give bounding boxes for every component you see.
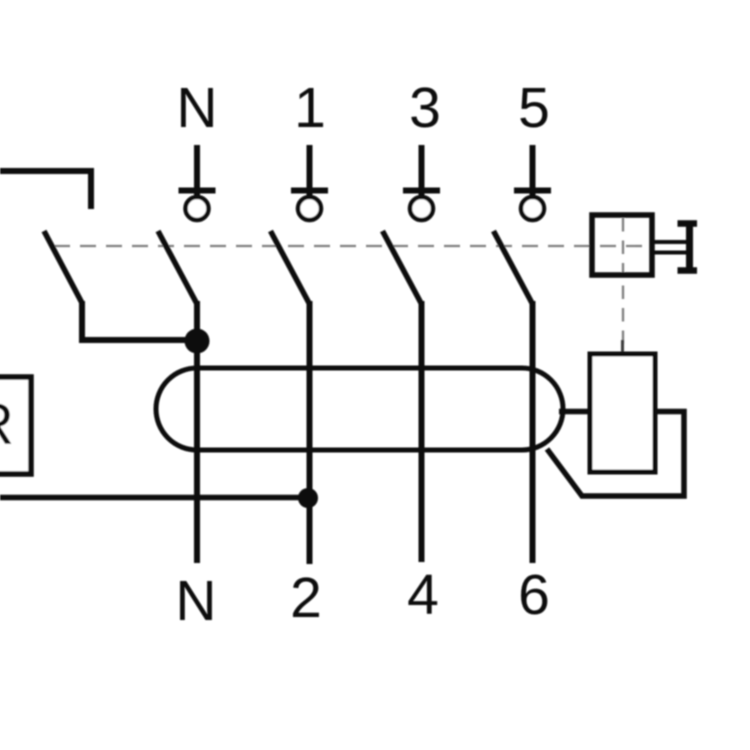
terminal label 1 (top) (294, 76, 326, 140)
conductor 4 (vertical) (419, 301, 425, 562)
terminal label N (bottom) (175, 569, 216, 633)
terminal label 4 (bottom) (407, 563, 439, 627)
terminal 5 (top): lead, clamp bar and fixed contact circle (514, 145, 551, 220)
conductor 2 (vertical) (307, 301, 313, 564)
test circuit wire (top left, to left edge) (0, 171, 91, 209)
junction node on conductor N (185, 329, 210, 354)
junction node on conductor 2 (298, 488, 318, 508)
terminal N (top): lead, clamp bar and fixed contact circle (179, 145, 216, 220)
auxiliary test switch blade (44, 231, 82, 303)
terminal label 5 (top) (518, 76, 550, 140)
svg-text:5: 5 (518, 76, 550, 140)
svg-text:R: R (0, 392, 14, 457)
mechanical linkage (horizontal dashed line) (54, 245, 646, 247)
switch pole N blade (158, 231, 197, 304)
terminal label 3 (top) (409, 76, 441, 140)
svg-text:N: N (175, 569, 216, 633)
test circuit wire (bottom, from left edge to node on conductor 2) (0, 495, 308, 501)
terminal 3 (top): lead, clamp bar and fixed contact circle (403, 145, 440, 220)
svg-text:3: 3 (409, 76, 441, 140)
terminal 1 (top): lead, clamp bar and fixed contact circle (291, 145, 328, 220)
svg-text:4: 4 (407, 563, 439, 627)
test resistor R (box at left edge) (0, 377, 31, 474)
switch pole 1-2 blade (271, 231, 310, 304)
test button T (square) (592, 215, 652, 275)
mechanical linkage (vertical dashed line to trip coil) (621, 218, 624, 352)
wire from trip coil around to CT (return loop) (547, 412, 684, 497)
svg-text:1: 1 (294, 76, 326, 140)
svg-text:N: N (176, 76, 217, 140)
trip coil (relay box) (590, 354, 655, 472)
svg-text:6: 6 (518, 563, 550, 627)
switch pole 3-4 blade (383, 231, 422, 304)
test button plunger (two parallel lines) (652, 242, 687, 253)
terminal label 2 (bottom) (290, 566, 322, 630)
svg-text:2: 2 (290, 566, 322, 630)
conductor 6 (vertical) (530, 301, 536, 563)
test button cap (bracket) (678, 221, 698, 274)
terminal label N (top) (176, 76, 217, 140)
terminal label 6 (bottom) (518, 563, 550, 627)
wire from auxiliary switch to node on N conductor (82, 301, 197, 340)
switch pole 5-6 blade (494, 231, 533, 304)
wire from CT secondary to trip coil (left) (559, 409, 590, 415)
conductor N (vertical) (194, 301, 200, 563)
current transformer core (toroid) (156, 368, 563, 450)
